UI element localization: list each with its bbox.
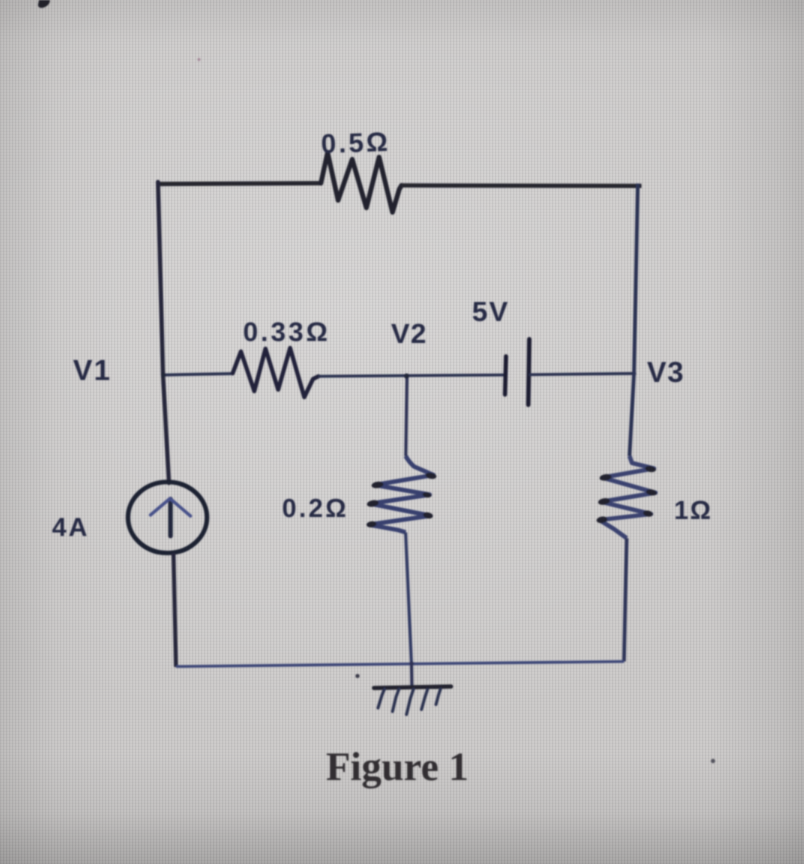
resistor 0.33ohm: [233, 348, 319, 397]
ground hatch 4: [422, 690, 428, 710]
dust speck near ground: [356, 674, 360, 678]
wire left vertical upper: [158, 182, 169, 483]
wire bottom: [176, 662, 624, 667]
wire left vertical lower: [174, 553, 177, 667]
svg-text:Figure 1: Figure 1: [326, 744, 469, 789]
svg-text:0.33Ω: 0.33Ω: [243, 317, 330, 347]
svg-text:V1: V1: [73, 355, 111, 387]
current source arrow shaft: [168, 499, 173, 536]
wire middle, left segment: [163, 374, 233, 375]
ground hatch 5: [436, 689, 441, 705]
svg-text:V3: V3: [647, 357, 684, 389]
ground bar: [374, 687, 451, 689]
resistor 0.5ohm: [321, 153, 402, 213]
wire right vertical lower: [624, 538, 627, 661]
resistor 0.2ohm: [369, 456, 434, 532]
svg-text:V2: V2: [391, 318, 427, 349]
svg-text:0.2Ω: 0.2Ω: [282, 493, 349, 523]
wire top, left of R 0.5: [156, 181, 321, 186]
dust speck upper: [198, 58, 201, 61]
svg-text:0.5Ω: 0.5Ω: [321, 127, 391, 159]
wire V2 branch lower: [406, 532, 412, 665]
junction dot left T: [161, 373, 166, 378]
resistor 1ohm ink blobs: [596, 465, 657, 524]
battery 5V long plate: [528, 339, 529, 405]
wire ground stub: [410, 664, 414, 687]
ground hatch 1: [378, 689, 385, 708]
resistor 0.2ohm ink blobs: [366, 472, 437, 528]
wire top, right of R 0.5: [402, 183, 642, 188]
battery 5V short plate: [505, 356, 506, 394]
junction dot V2: [404, 373, 409, 378]
svg-text:5V: 5V: [472, 296, 509, 327]
ground hatch 2: [393, 689, 400, 712]
stray pen mark top-left: [38, 0, 50, 8]
ground hatch 3: [407, 689, 414, 715]
wire right vertical upper: [630, 184, 638, 457]
wire V2 branch upper: [406, 377, 407, 456]
junction dot bottom crossing: [409, 661, 413, 665]
wire middle, V2 segment: [319, 375, 506, 376]
current source I1 circle: [128, 482, 207, 553]
svg-text:1Ω: 1Ω: [674, 495, 712, 525]
svg-text:4A: 4A: [52, 512, 89, 542]
dust speck lower right: [711, 759, 715, 763]
current source arrow head: [151, 499, 191, 517]
resistor 1ohm: [599, 456, 655, 538]
wire middle, right segment: [529, 374, 634, 375]
junction dot right T: [632, 371, 636, 375]
